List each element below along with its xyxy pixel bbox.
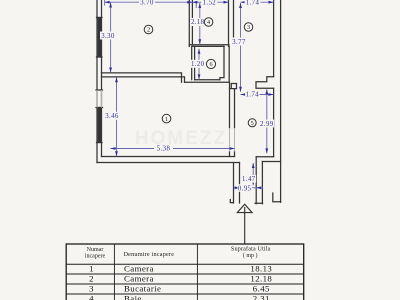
window W1 hatch — [98, 18, 100, 58]
dim line 3.46 — [116, 77, 118, 156]
table grid — [66, 244, 304, 300]
room label 3 — [244, 23, 253, 32]
door room1 right (faint) — [97, 90, 235, 152]
entrance stub right — [255, 157, 263, 204]
door break left wall ticks — [96, 90, 103, 108]
dim line 3.70 — [105, 1, 193, 3]
svg-text:Suprafata Utila: Suprafata Utila — [231, 245, 271, 252]
svg-text:3.77: 3.77 — [232, 39, 246, 46]
svg-text:1.20: 1.20 — [191, 61, 205, 68]
shaft staircase — [256, 77, 274, 89]
dim line 5.38 — [111, 148, 235, 150]
wall room1 right lower — [230, 152, 235, 157]
svg-text:1.74: 1.74 — [246, 0, 260, 6]
wall right inner upper — [273, 0, 275, 77]
svg-text:2.31: 2.31 — [253, 294, 270, 300]
wall room4/room3 — [229, 0, 234, 46]
wall right inner lower — [273, 88, 275, 156]
svg-text:2: 2 — [89, 274, 94, 284]
svg-text:incapere: incapere — [85, 254, 106, 260]
dim line 2.18 — [199, 3, 201, 44]
svg-text:6.45: 6.45 — [253, 284, 270, 294]
svg-text:2.99: 2.99 — [260, 121, 274, 128]
wall bottom right band — [256, 157, 280, 162]
room label 5 — [248, 119, 256, 127]
window W1 ticks — [97, 18, 103, 58]
svg-text:Baie: Baie — [124, 294, 142, 300]
wall room6 bottom — [185, 80, 230, 82]
room label 2 — [144, 25, 153, 34]
window W2 ticks — [97, 142, 103, 144]
wall divider rooms 2-1 — [102, 73, 185, 82]
wall room6 left — [192, 46, 195, 79]
svg-text:12.18: 12.18 — [250, 274, 272, 284]
dim line 3.77 — [240, 3, 242, 92]
svg-text:3.30: 3.30 — [101, 33, 115, 40]
wall left inner line — [101, 0, 103, 157]
svg-text:Numar: Numar — [87, 247, 104, 253]
dim line 1.52 — [192, 1, 228, 3]
table row 1 — [89, 264, 272, 300]
svg-text:3: 3 — [247, 24, 250, 31]
svg-text:0.95: 0.95 — [238, 185, 252, 192]
svg-text:1.47: 1.47 — [242, 176, 256, 183]
svg-text:5: 5 — [251, 120, 254, 127]
room circles — [144, 18, 256, 127]
svg-text:Camera: Camera — [124, 274, 154, 284]
svg-text:1.74: 1.74 — [245, 92, 259, 99]
dim line 2.99 — [266, 89, 268, 153]
svg-text:6: 6 — [209, 61, 212, 68]
svg-text:HOMEZZ: HOMEZZ — [135, 128, 227, 149]
svg-text:18.13: 18.13 — [250, 264, 272, 274]
dim line 1.74 mid — [241, 94, 274, 96]
niche corridor notch — [230, 84, 237, 89]
wall right outer foot — [273, 193, 281, 202]
wall room6 right — [220, 46, 229, 82]
dim line 1.20 — [198, 49, 200, 80]
svg-text:( mp ): ( mp ) — [243, 252, 258, 259]
svg-text:1.52: 1.52 — [203, 0, 217, 6]
table header texts — [85, 245, 271, 259]
dimension arrowheads — [105, 1, 274, 189]
wall left outer line — [96, 0, 98, 163]
door left wall (faint) — [97, 90, 102, 108]
dim line 1.74 top — [241, 1, 274, 3]
svg-text:3.46: 3.46 — [105, 113, 119, 120]
svg-text:Bucatarie: Bucatarie — [124, 284, 161, 294]
entrance arrow — [237, 204, 252, 243]
wall room1 right upper — [230, 82, 235, 128]
room label 6 — [206, 59, 215, 68]
dim line 0.95 — [234, 187, 264, 189]
svg-text:Camera: Camera — [124, 264, 154, 274]
svg-text:5.38: 5.38 — [157, 146, 171, 153]
room label 4 — [204, 18, 213, 27]
entrance stub left — [230, 163, 239, 204]
svg-text:2.18: 2.18 — [191, 19, 205, 26]
wall room4 bottom — [189, 45, 229, 47]
svg-text:4: 4 — [89, 294, 94, 300]
dim ext tick top-left — [105, 0, 197, 8]
wall right outer — [280, 0, 282, 202]
dim line 1.47 — [252, 163, 254, 185]
dimension texts — [101, 0, 273, 192]
window W2 hatch — [98, 108, 100, 143]
svg-text:4: 4 — [207, 19, 210, 26]
dimension text backgrounds — [100, 0, 274, 192]
svg-text:3.70: 3.70 — [140, 0, 154, 6]
svg-text:Denumire incapere: Denumire incapere — [124, 251, 175, 258]
svg-text:2: 2 — [147, 27, 150, 34]
wall room1 bottom — [97, 157, 240, 163]
wall room2/room4 — [189, 0, 192, 47]
dim line 3.30 — [110, 3, 112, 73]
room label 1 — [162, 114, 171, 123]
svg-text:1: 1 — [89, 264, 94, 274]
svg-text:3: 3 — [89, 284, 94, 294]
svg-text:1: 1 — [165, 116, 168, 123]
